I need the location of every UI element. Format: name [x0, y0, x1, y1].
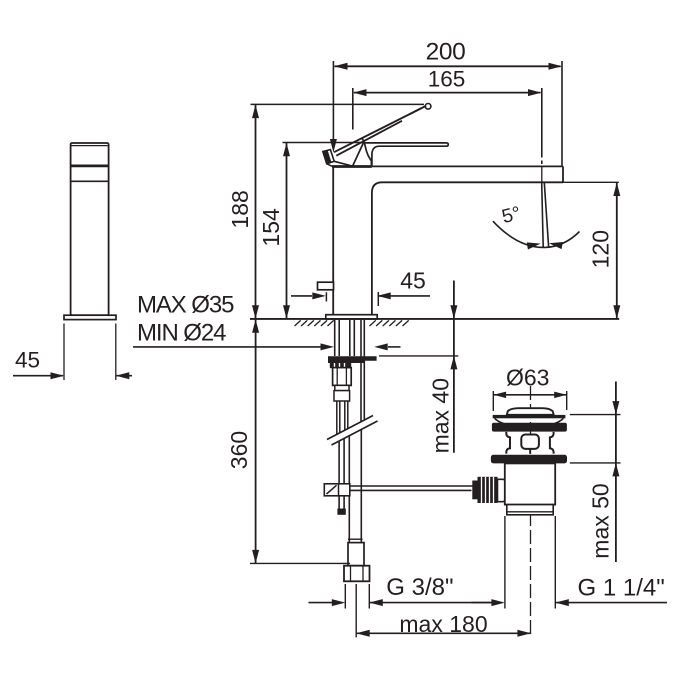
dimension 165	[353, 67, 542, 165]
drain centerline	[530, 386, 532, 637]
dimension max 50	[570, 382, 621, 563]
dimension max 40	[379, 281, 458, 454]
svg-text:360: 360	[226, 431, 252, 469]
faucet side view base flange	[64, 315, 116, 319]
pop-up rod tab	[318, 282, 334, 290]
dimension 120	[563, 182, 620, 318]
faucet body and spout	[332, 166, 563, 315]
svg-text:max 40: max 40	[428, 378, 454, 453]
mounting nut	[333, 368, 352, 386]
dimension 45 (base width)	[291, 268, 430, 306]
svg-text:G 3/8": G 3/8"	[386, 574, 453, 601]
supply pipes upper	[337, 401, 348, 436]
supply hose lower	[348, 425, 364, 566]
lever butt end cap	[323, 150, 353, 167]
svg-text:45: 45	[400, 268, 426, 294]
dimension G 3/8	[309, 574, 494, 609]
dimension max 180	[356, 584, 531, 637]
svg-text:165: 165	[428, 67, 466, 92]
drain rim plate	[493, 415, 566, 418]
svg-text:45: 45	[15, 348, 40, 373]
faucet lever handle raised	[334, 104, 431, 166]
drain flange flare	[495, 418, 564, 424]
dimension 188	[227, 104, 424, 318]
5 degree arc	[493, 202, 580, 249]
pop-up horizontal rod	[325, 486, 476, 490]
drain body	[506, 432, 553, 454]
svg-text:188: 188	[227, 190, 253, 228]
rod clamp	[324, 484, 350, 496]
countertop hatching	[295, 320, 409, 326]
threaded shank	[335, 320, 355, 357]
drain flange ring	[492, 423, 567, 432]
dimension 200	[330, 39, 562, 166]
svg-text:200: 200	[426, 39, 466, 66]
shank lower coupling	[334, 385, 350, 401]
mounting washer	[328, 356, 377, 368]
pop-up rod upper	[361, 320, 364, 425]
dimension 45 (side view width)	[13, 324, 132, 381]
lever handle closed position	[362, 138, 448, 166]
svg-text:max 50: max 50	[588, 483, 614, 558]
svg-text:154: 154	[258, 208, 284, 247]
dimension G 1 1/4	[472, 516, 668, 609]
dimension 360	[226, 319, 350, 563]
pipe break symbol	[327, 415, 378, 446]
faucet side view body	[71, 143, 109, 315]
svg-text:max 180: max 180	[399, 611, 487, 637]
faucet base flange	[326, 315, 377, 319]
hose nut G3/8	[344, 566, 370, 582]
countertop line	[250, 318, 619, 320]
drain tailpiece	[505, 463, 555, 514]
dimension 154	[258, 143, 364, 319]
svg-text:Ø63: Ø63	[506, 365, 549, 391]
hole diameter leader arrows	[133, 343, 401, 350]
svg-text:MIN Ø24: MIN Ø24	[137, 320, 226, 347]
svg-text:G 1 1/4": G 1 1/4"	[578, 575, 665, 602]
pop-up rod lower	[337, 434, 345, 515]
outlet spray angle lines	[542, 183, 549, 248]
svg-text:MAX Ø35: MAX Ø35	[137, 292, 234, 319]
drain locknut	[491, 455, 567, 464]
rod knurled nut	[472, 477, 510, 503]
dimension diameter 63	[493, 365, 566, 412]
svg-text:120: 120	[587, 230, 613, 268]
drain plug cap	[507, 408, 554, 415]
